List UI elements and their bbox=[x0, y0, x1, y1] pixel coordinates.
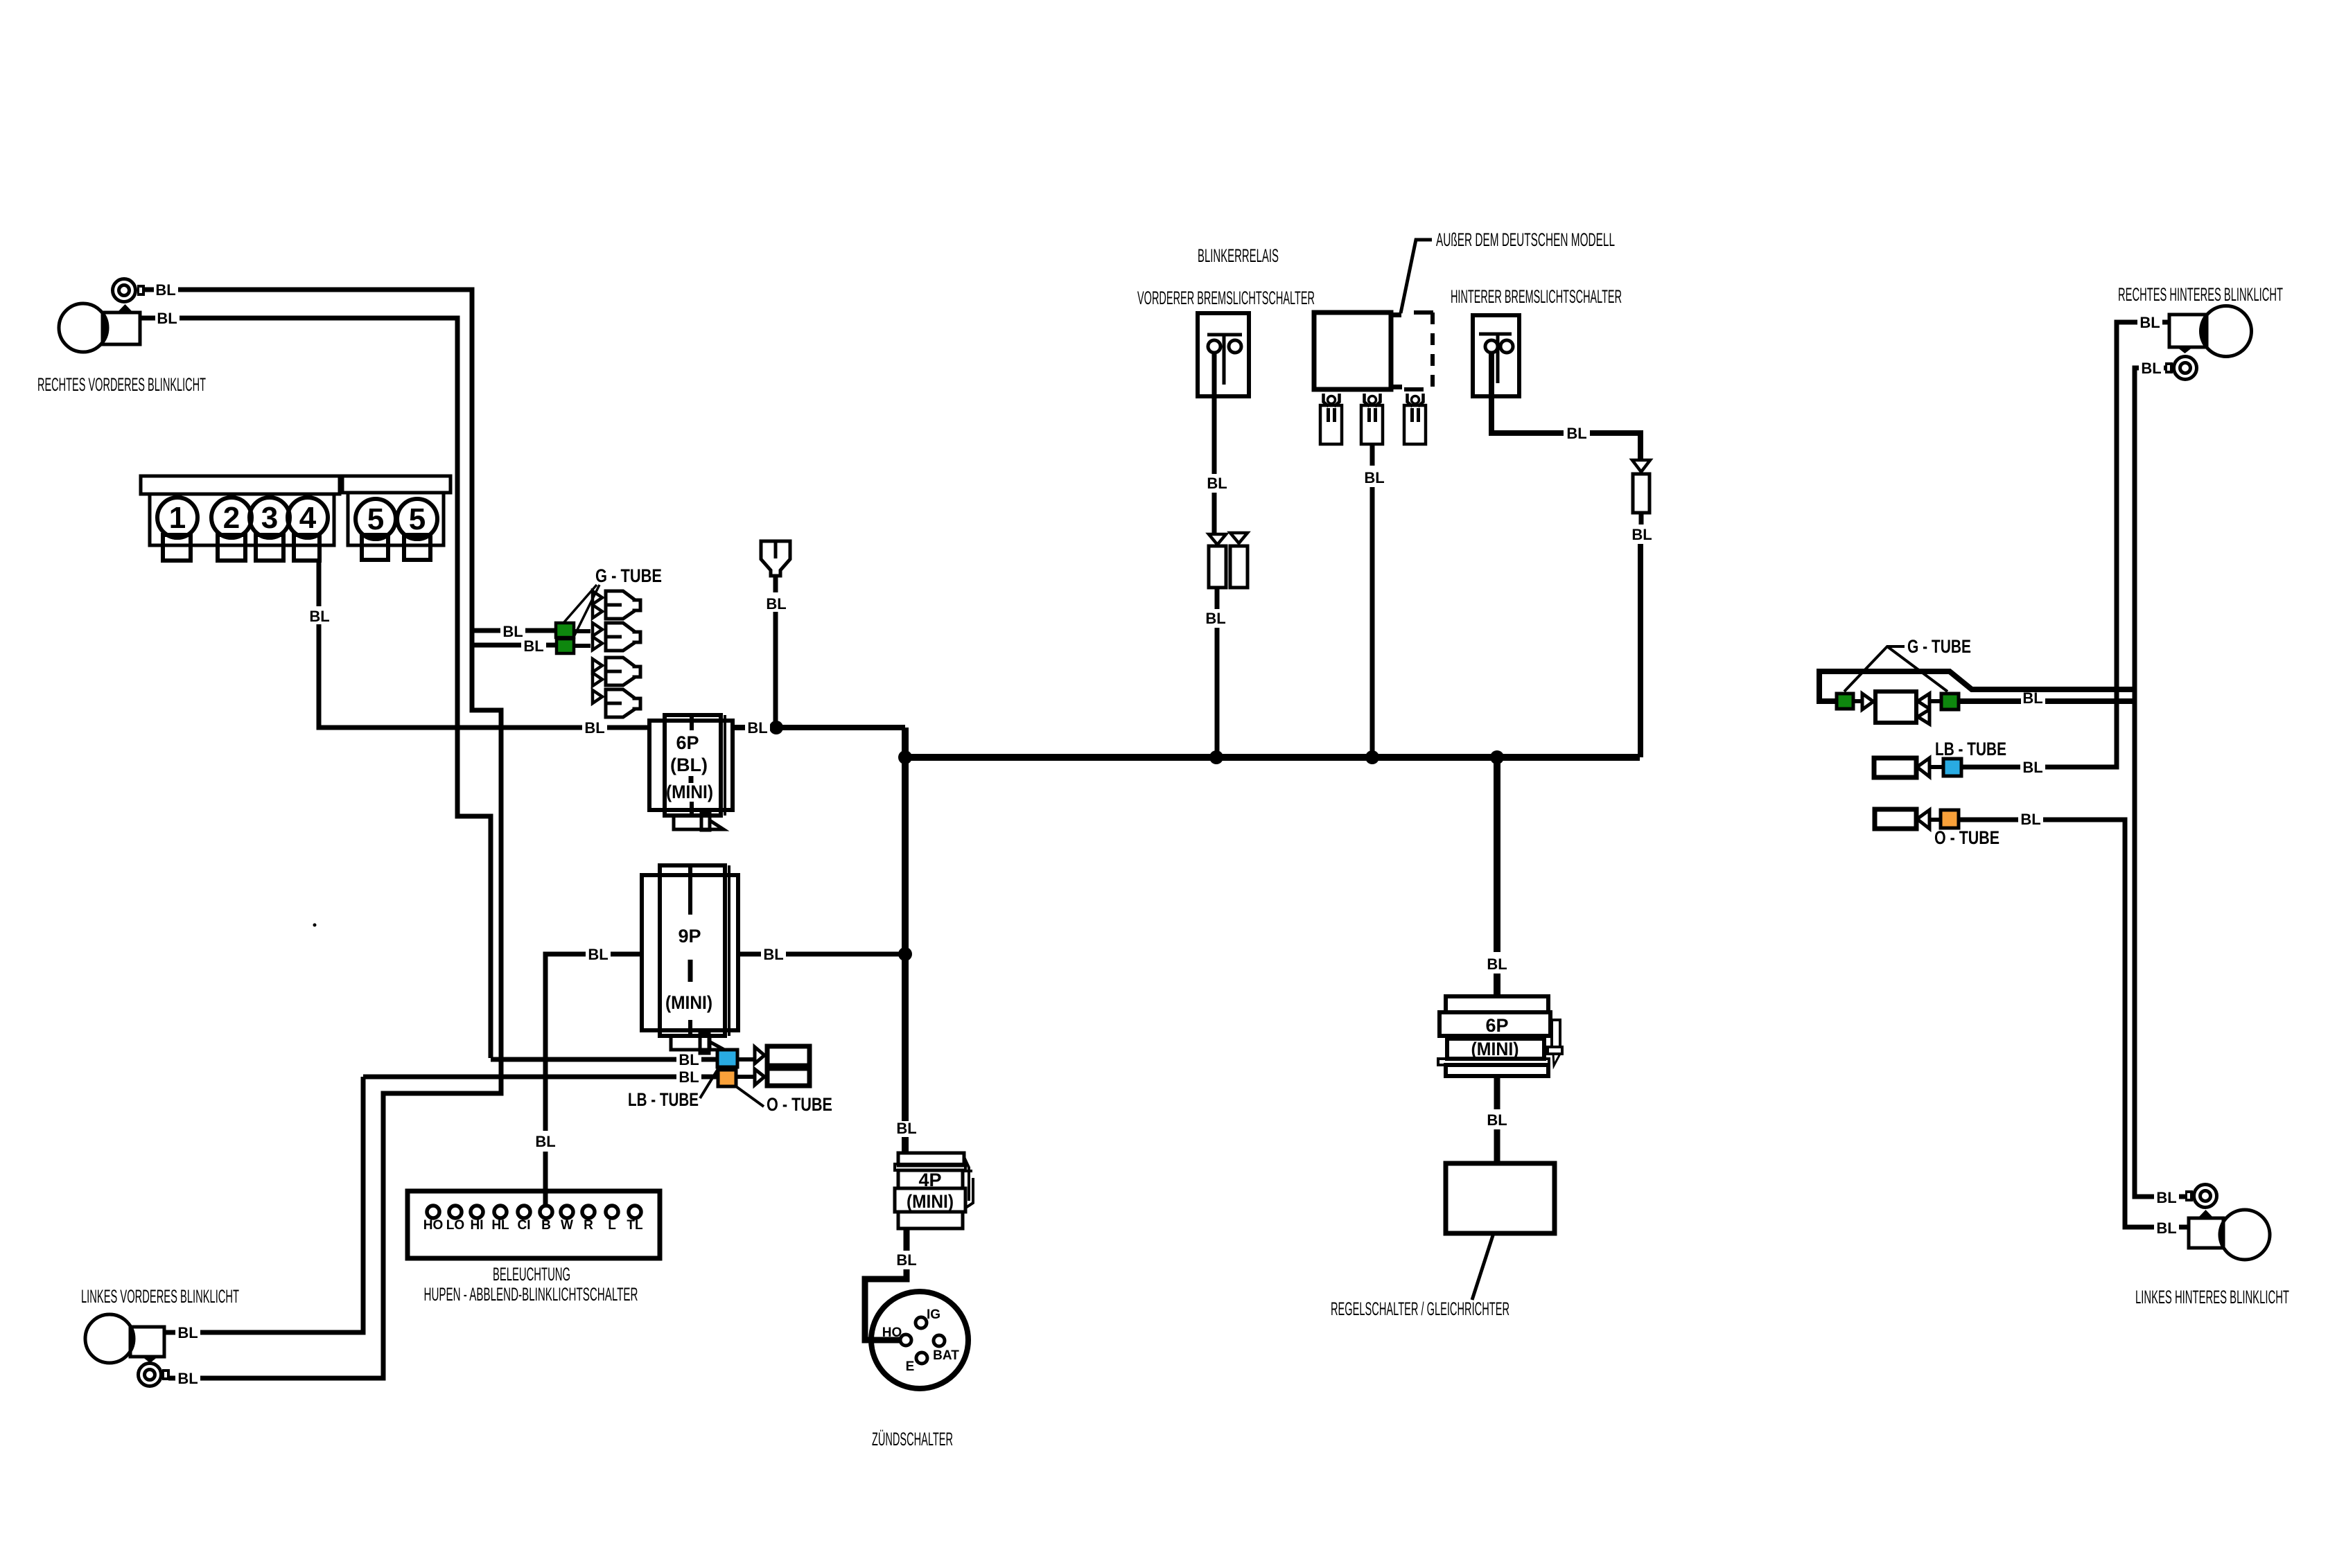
stub wire sleeve1 bbox=[572, 629, 590, 633]
wire 4P down bbox=[904, 1228, 910, 1251]
svg-text:BL: BL bbox=[1566, 425, 1586, 442]
svg-text:L: L bbox=[608, 1218, 616, 1233]
svg-text:BL: BL bbox=[177, 1370, 198, 1387]
front brake switch box bbox=[1198, 313, 1249, 396]
flasher relay solid box bbox=[1314, 312, 1391, 389]
connector 6P right: thin band bbox=[1438, 1059, 1549, 1065]
svg-text:AUßER DEM DEUTSCHEN MODELL: AUßER DEM DEUTSCHEN MODELL bbox=[1436, 229, 1615, 250]
svg-text:TL: TL bbox=[627, 1218, 643, 1233]
LB triangle bbox=[755, 1047, 764, 1064]
diode triangle on rear brake wire bbox=[1632, 460, 1650, 472]
wire front brake switch down bbox=[1212, 353, 1217, 474]
lamp bulb crescent bbox=[59, 303, 107, 352]
LB tube blue sleeve bbox=[717, 1050, 737, 1067]
pin TL bbox=[629, 1206, 641, 1218]
label BL left of 9P bbox=[586, 946, 611, 962]
O triangle bbox=[755, 1069, 764, 1085]
svg-text:HI: HI bbox=[471, 1218, 484, 1233]
connector 6P right: bottom block bbox=[1446, 1065, 1548, 1076]
svg-text:BL: BL bbox=[896, 1120, 916, 1137]
lamp socket rect bbox=[2189, 1218, 2223, 1248]
label BL left lamp wire2 bbox=[175, 1370, 200, 1386]
label BL G-tube wire1 bbox=[500, 623, 525, 639]
connector 6P right: MINI band bbox=[1447, 1039, 1544, 1059]
callout G right bbox=[1844, 646, 1948, 691]
main bus wire bbox=[905, 754, 1640, 761]
label BL bulb4 wire bbox=[307, 606, 332, 624]
svg-text:R: R bbox=[584, 1218, 593, 1233]
SECTION: top-left lamp bbox=[37, 279, 557, 1379]
callout line G-tube 1 bbox=[563, 585, 597, 623]
pin R bbox=[582, 1206, 595, 1218]
svg-text:BL: BL bbox=[155, 281, 175, 299]
indicator housing B cap bbox=[342, 476, 450, 493]
tube terminal symbol 4 bbox=[593, 689, 640, 717]
bulb 1 pin square bbox=[163, 535, 191, 561]
connector 6P inner body bbox=[665, 715, 721, 816]
svg-text:HINTERER BREMSLICHTSCHALTER: HINTERER BREMSLICHTSCHALTER bbox=[1451, 286, 1622, 307]
svg-text:2: 2 bbox=[223, 501, 240, 535]
connector 6P top pin stub bbox=[690, 715, 694, 730]
lamp connector tab bbox=[137, 285, 145, 296]
svg-text:BAT: BAT bbox=[933, 1348, 959, 1363]
svg-text:W: W bbox=[561, 1218, 573, 1233]
junction dot bus right bbox=[1490, 750, 1504, 764]
G-tube connector green sleeve 2 bbox=[557, 639, 574, 653]
stub bbox=[1853, 699, 1862, 703]
pin HO bbox=[900, 1334, 911, 1346]
svg-text:BLINKERRELAIS: BLINKERRELAIS bbox=[1198, 245, 1279, 266]
fuse symbol inline: body bbox=[1209, 546, 1226, 588]
lamp connector ring inner bbox=[119, 285, 130, 296]
front brake switch contact R bbox=[1229, 340, 1241, 353]
svg-text:VORDERER BREMSLICHTSCHALTER: VORDERER BREMSLICHTSCHALTER bbox=[1137, 288, 1315, 308]
label BL LR wire top bbox=[2154, 1189, 2179, 1206]
pin BAT bbox=[934, 1335, 945, 1346]
connector 6P bottom pin stub bbox=[690, 802, 694, 816]
relay top edge extension bbox=[1391, 312, 1401, 317]
wire relay terminal 2 down bbox=[1370, 444, 1375, 466]
rear brake switch contact R bbox=[1500, 340, 1513, 353]
SECTION: switch box / left front lamp bbox=[81, 1191, 660, 1387]
svg-text:BL: BL bbox=[2141, 360, 2161, 377]
wire right green sleeve to left rear lamp top bbox=[1959, 698, 2135, 704]
connector 9P inner body bbox=[660, 865, 725, 1036]
wire G-tube branch 2 bbox=[472, 643, 557, 648]
lamp linkes vorderes Blinklicht: socket rect bbox=[130, 1327, 164, 1357]
G box triangle up bbox=[1918, 694, 1929, 709]
label BL RR wire2 bbox=[2139, 360, 2164, 376]
bulb 1 bbox=[157, 497, 198, 538]
lamp bulb crescent bbox=[2220, 1210, 2270, 1260]
svg-text:BELEUCHTUNG: BELEUCHTUNG bbox=[493, 1264, 570, 1285]
svg-text:BL: BL bbox=[1364, 469, 1384, 486]
wire below fuse bbox=[1639, 513, 1644, 525]
svg-text:BL: BL bbox=[679, 1068, 699, 1086]
lamp connector ring inner bbox=[2200, 1191, 2211, 1201]
O tube body bbox=[767, 1068, 809, 1086]
connector 4P top block bbox=[898, 1153, 964, 1165]
svg-text:LO: LO bbox=[446, 1218, 464, 1233]
stray dot bbox=[313, 924, 317, 927]
wire O row to left rear lamp bottom bbox=[1960, 820, 2189, 1227]
wire into 4P bbox=[902, 1137, 909, 1154]
svg-text:BL: BL bbox=[309, 608, 329, 625]
label BL G-tube wire2 bbox=[521, 637, 546, 653]
svg-text:G - TUBE: G - TUBE bbox=[595, 565, 662, 586]
svg-text:O - TUBE: O - TUBE bbox=[1934, 827, 1999, 848]
wire rear brake switch down and right bbox=[1491, 353, 1640, 459]
svg-text:(BL): (BL) bbox=[670, 755, 708, 775]
svg-text:RECHTES HINTERES BLINKLICHT: RECHTES HINTERES BLINKLICHT bbox=[2118, 284, 2283, 305]
connector 9P top pin stub bbox=[688, 865, 692, 915]
relay terminal 3 bbox=[1404, 394, 1426, 444]
svg-text:BL: BL bbox=[2156, 1219, 2176, 1237]
LB stub bbox=[737, 1057, 755, 1062]
bulb 3 bbox=[250, 497, 290, 538]
connector 4P clamp band bbox=[895, 1164, 965, 1170]
wire right rear lamp terminal2 down bbox=[2135, 368, 2185, 1197]
green sleeve right bbox=[1941, 694, 1959, 710]
SECTION: right 6P / regulator bbox=[1331, 750, 1562, 1319]
svg-text:BL: BL bbox=[2139, 314, 2160, 331]
fuse symbol floating: triangle bbox=[1230, 533, 1248, 543]
connector 6P right: top block bbox=[1446, 996, 1548, 1012]
svg-text:BL: BL bbox=[523, 637, 543, 655]
spade terminal above 6P junction bbox=[761, 541, 790, 576]
connector 9P latch bbox=[671, 1032, 724, 1053]
SECTION: left wiring and tubes bbox=[164, 565, 832, 1378]
svg-text:BL: BL bbox=[1207, 475, 1227, 492]
lamp triangle contact bbox=[117, 304, 133, 312]
lamp bulb circle bbox=[85, 1314, 134, 1363]
stub to green sleeve right bbox=[1929, 699, 1941, 703]
svg-text:HO: HO bbox=[423, 1218, 444, 1233]
svg-text:BL: BL bbox=[766, 595, 786, 613]
label BL wire1 bbox=[154, 281, 178, 298]
pin B bbox=[540, 1206, 552, 1218]
svg-text:BL: BL bbox=[535, 1133, 555, 1150]
connector 6P latch bbox=[674, 813, 724, 830]
green sleeve left bbox=[1837, 694, 1853, 709]
junction dot front brake bbox=[1209, 750, 1223, 764]
O orange sleeve right bbox=[1941, 810, 1959, 828]
rear brake switch box bbox=[1473, 315, 1519, 396]
callout O bbox=[736, 1086, 764, 1107]
connector 6P right double line bbox=[724, 715, 726, 816]
wire G loop to left green sleeve bbox=[1819, 671, 2135, 701]
svg-text:CI: CI bbox=[518, 1218, 531, 1233]
SECTION: center 4P / ignition bbox=[865, 1120, 973, 1450]
svg-text:BL: BL bbox=[588, 946, 608, 963]
wire left lamp riser 2 bbox=[381, 1093, 386, 1378]
indicator housing A body bbox=[150, 494, 334, 545]
svg-text:O - TUBE: O - TUBE bbox=[767, 1094, 832, 1115]
fuse body on rear brake wire bbox=[1633, 474, 1649, 513]
wire 9P left + riser to switch bbox=[545, 954, 642, 1131]
regulator/rectifier box bbox=[1446, 1163, 1555, 1233]
svg-text:RECHTES VORDERES BLINKLICHT: RECHTES VORDERES BLINKLICHT bbox=[37, 374, 206, 395]
rear brake switch T bar bbox=[1479, 334, 1512, 383]
triangle right-pointing bbox=[1862, 694, 1873, 710]
G tube box bbox=[1875, 691, 1916, 723]
lamp bulb circle bbox=[59, 303, 107, 352]
relay bottom edge extension bbox=[1391, 385, 1402, 389]
svg-text:G - TUBE: G - TUBE bbox=[1907, 636, 1971, 657]
wire left lamp riser 1 bbox=[164, 1077, 363, 1332]
svg-text:(MINI): (MINI) bbox=[907, 1191, 954, 1212]
connector 4P MINI band bbox=[895, 1188, 965, 1212]
lamp bulb circle bbox=[2220, 1210, 2270, 1260]
svg-text:BL: BL bbox=[679, 1051, 699, 1068]
svg-text:LINKES HINTERES BLINKLICHT: LINKES HINTERES BLINKLICHT bbox=[2135, 1287, 2289, 1307]
fuse symbol floating: body bbox=[1230, 546, 1248, 588]
wire to ignition switch HO pin bbox=[865, 1269, 907, 1340]
lamp triangle contact bbox=[2198, 1210, 2214, 1218]
svg-text:BL: BL bbox=[2020, 811, 2040, 828]
label BL right of 9P bbox=[761, 946, 786, 962]
wire to bus bbox=[1215, 628, 1220, 757]
svg-text:LB - TUBE: LB - TUBE bbox=[1935, 739, 2006, 759]
pin HO bbox=[427, 1206, 439, 1218]
svg-text:LB - TUBE: LB - TUBE bbox=[628, 1089, 699, 1110]
label BL spade bbox=[764, 592, 789, 612]
bulb 2 bbox=[211, 497, 252, 538]
lamp rechtes hinteres Blinklicht: socket rect bbox=[2169, 315, 2207, 347]
connector 4P bottom block bbox=[898, 1212, 963, 1228]
svg-text:9P: 9P bbox=[678, 926, 701, 946]
svg-text:6P: 6P bbox=[1485, 1015, 1508, 1036]
label BL rear brake horizontal bbox=[1564, 425, 1590, 441]
wire into right 6P bbox=[1494, 974, 1500, 998]
bulb 3 pin square bbox=[256, 535, 283, 561]
label BL LB row bbox=[676, 1052, 701, 1067]
connector 6P right: side bracket bbox=[1552, 1020, 1560, 1047]
pin IG bbox=[916, 1317, 927, 1328]
wire into regulator bbox=[1494, 1129, 1500, 1164]
SECTION: bulb cluster bbox=[141, 476, 649, 927]
junction dot relay bbox=[1365, 750, 1379, 764]
bulb 2 pin square bbox=[218, 535, 245, 561]
svg-text:HO: HO bbox=[882, 1325, 902, 1340]
svg-text:BL: BL bbox=[2022, 759, 2042, 776]
svg-text:1: 1 bbox=[169, 501, 186, 535]
bulb 5b pin square bbox=[404, 535, 430, 560]
G box triangle down bbox=[1918, 710, 1929, 724]
svg-text:IG: IG bbox=[927, 1307, 940, 1322]
label BL O row right bbox=[2018, 812, 2043, 827]
front brake switch contact L bbox=[1208, 340, 1220, 353]
svg-text:E: E bbox=[906, 1359, 915, 1374]
wire bus down to right 6P bbox=[1494, 757, 1500, 952]
wire G-tube branch 1 bbox=[472, 628, 557, 633]
lamp triangle contact bbox=[142, 1357, 158, 1363]
wire right rear lamp terminal1 to LB row bbox=[1961, 322, 2170, 767]
tube terminal symbol 2 bbox=[593, 623, 640, 651]
label BL LR wire bottom bbox=[2154, 1219, 2179, 1236]
bulb 4 pin square bbox=[294, 535, 320, 561]
indicator housing A cap bbox=[141, 476, 340, 494]
lamp triangle contact bbox=[2177, 347, 2193, 353]
pin HI bbox=[471, 1206, 483, 1218]
LB stub bbox=[1929, 765, 1943, 769]
svg-text:BL: BL bbox=[1487, 955, 1507, 973]
connector 9P: outer shell bbox=[642, 875, 738, 1030]
rear brake switch contact L bbox=[1485, 340, 1498, 353]
svg-text:BL: BL bbox=[1631, 526, 1652, 543]
front brake switch T bar bbox=[1207, 335, 1242, 385]
LB tube body right bbox=[1874, 758, 1916, 777]
bulb 5b bbox=[397, 499, 437, 539]
pin HL bbox=[494, 1206, 507, 1218]
svg-text:5: 5 bbox=[367, 502, 384, 536]
lamp connector ring outer bbox=[113, 279, 136, 302]
switch box Beleuchtung/Hupen bbox=[408, 1191, 660, 1258]
wire right-front lamp terminal 1 (BL) to vertical bus B bbox=[145, 290, 501, 1378]
svg-text:5: 5 bbox=[409, 502, 426, 536]
label BL wire2 bbox=[155, 310, 180, 326]
junction dot 6P bbox=[769, 721, 783, 734]
svg-text:BL: BL bbox=[763, 946, 783, 963]
connector 9P bottom pin stub bbox=[688, 1020, 692, 1036]
wire right 6P down bbox=[1494, 1076, 1500, 1109]
O triangle right bbox=[1917, 810, 1929, 829]
LB tube body bbox=[767, 1046, 809, 1066]
lamp connector ring outer bbox=[2174, 357, 2197, 380]
callout ausser dem deutschen modell bbox=[1401, 240, 1432, 313]
svg-text:BL: BL bbox=[2022, 689, 2042, 707]
pin LO bbox=[449, 1206, 462, 1218]
wire 9P right to bus riser bbox=[738, 952, 905, 957]
fuse symbol inline: triangle bbox=[1209, 534, 1226, 545]
lamp connector tab bbox=[2185, 1190, 2193, 1201]
lamp connector ring inner bbox=[145, 1370, 155, 1380]
svg-text:4: 4 bbox=[299, 501, 317, 535]
lamp bulb circle bbox=[2201, 306, 2252, 357]
svg-text:HL: HL bbox=[491, 1218, 509, 1233]
pin L bbox=[606, 1206, 618, 1218]
SECTION: right tubes / rear lamps bbox=[1819, 284, 2289, 1307]
svg-text:(MINI): (MINI) bbox=[1471, 1039, 1519, 1059]
svg-text:BL: BL bbox=[2156, 1189, 2176, 1206]
svg-text:(MINI): (MINI) bbox=[666, 782, 713, 802]
svg-text:BL: BL bbox=[896, 1251, 916, 1269]
svg-text:BL: BL bbox=[747, 719, 767, 737]
lamp rechtes vorderes Blinklicht: socket rect bbox=[103, 312, 140, 344]
connector 4P side bracket bbox=[963, 1157, 973, 1208]
lamp connector tab bbox=[162, 1369, 170, 1380]
svg-text:BL: BL bbox=[502, 623, 523, 640]
svg-text:3: 3 bbox=[261, 501, 278, 535]
bulb 5a pin square bbox=[362, 535, 388, 560]
label BL right of 6P bbox=[745, 719, 770, 736]
label BL LB row right bbox=[2020, 759, 2045, 775]
label BL RR wire1 bbox=[2137, 314, 2162, 331]
wire relay to bus bbox=[1370, 487, 1375, 757]
svg-text:BL: BL bbox=[1205, 610, 1225, 627]
relay dashed extension top bbox=[1414, 310, 1435, 315]
G-tube connector green sleeve 1 bbox=[556, 623, 574, 637]
SECTION: connectors 6P/9P bbox=[535, 541, 1640, 1206]
lamp bulb crescent bbox=[85, 1314, 134, 1363]
label BL G row right bbox=[2021, 692, 2045, 705]
tube terminal symbol 1 bbox=[593, 591, 640, 619]
callout line G-tube 2 bbox=[573, 585, 599, 638]
svg-text:(MINI): (MINI) bbox=[665, 992, 712, 1013]
connector 6P right: main band bbox=[1439, 1012, 1550, 1036]
O tube body right bbox=[1875, 809, 1916, 829]
O tube orange sleeve bbox=[718, 1070, 736, 1086]
relay terminal 1 bbox=[1320, 394, 1342, 444]
stub wire sleeve2 bbox=[572, 644, 590, 648]
wire spade terminal down to junction bbox=[773, 576, 778, 728]
connector 9P right double line bbox=[728, 865, 730, 1036]
wire bus down to 4P bbox=[902, 757, 909, 1121]
callout regulator bbox=[1472, 1233, 1494, 1300]
wire right-front lamp terminal 2 (BL) to vertical bus A bbox=[139, 318, 491, 1058]
relay terminal 2 bbox=[1361, 394, 1383, 444]
wire 6P right to junction and down to bus bbox=[733, 725, 905, 730]
wire rear brake to bus bbox=[1638, 544, 1643, 757]
svg-text:REGELSCHALTER / GLEICHRICHTER: REGELSCHALTER / GLEICHRICHTER bbox=[1331, 1298, 1509, 1319]
connector 6P (BL)(MINI): outer shell bbox=[649, 721, 733, 810]
label BL left lamp wire1 bbox=[175, 1324, 200, 1341]
svg-text:LINKES VORDERES BLINKLICHT: LINKES VORDERES BLINKLICHT bbox=[81, 1286, 239, 1307]
bulb 5a bbox=[356, 499, 396, 539]
bulb 4 bbox=[288, 497, 328, 538]
lamp linkes hinteres Blinklicht: connector ring outer bbox=[2194, 1185, 2217, 1208]
wire LB-tube row bbox=[491, 1057, 717, 1062]
lamp connector ring inner bbox=[2180, 363, 2191, 373]
lamp connector ring outer bbox=[139, 1364, 161, 1386]
pin CI bbox=[518, 1206, 530, 1218]
label BL left of 6P bbox=[582, 719, 607, 736]
wire continues bbox=[1212, 493, 1217, 534]
label BL O row bbox=[676, 1069, 701, 1084]
svg-text:HUPEN - ABBLEND-BLINKLICHTSCHA: HUPEN - ABBLEND-BLINKLICHTSCHALTER bbox=[424, 1284, 638, 1305]
pin W bbox=[561, 1206, 573, 1218]
svg-text:BL: BL bbox=[584, 719, 604, 737]
callout LB bbox=[700, 1068, 719, 1098]
O stub bbox=[736, 1075, 755, 1079]
relay dashed extension bottom bbox=[1404, 387, 1425, 391]
tube terminal symbol 3 bbox=[593, 658, 640, 686]
O stub bbox=[1929, 818, 1941, 822]
dash bbox=[689, 776, 694, 783]
wire below fuse bbox=[1215, 588, 1220, 609]
pin E bbox=[916, 1353, 927, 1364]
wire O-tube row (from left front lamp riser) bbox=[363, 1075, 718, 1080]
connector 4P mid block bbox=[898, 1170, 963, 1188]
svg-text:BL: BL bbox=[1487, 1111, 1507, 1129]
wire indicator bulb 4 to 6P connector (BL) bbox=[319, 558, 649, 728]
lamp connector tab bbox=[2165, 362, 2173, 373]
svg-text:ZÜNDSCHALTER: ZÜNDSCHALTER bbox=[872, 1429, 953, 1450]
svg-text:BL: BL bbox=[157, 310, 177, 327]
SECTION: top middle relay/brake switches bbox=[1137, 229, 1652, 764]
relay dashed extension right bbox=[1430, 312, 1435, 389]
LB triangle right bbox=[1917, 758, 1929, 777]
dash 9P bbox=[688, 960, 693, 982]
junction dot bus left bbox=[898, 750, 912, 764]
indicator housing B body bbox=[348, 493, 444, 545]
svg-text:B: B bbox=[541, 1218, 551, 1233]
svg-text:6P: 6P bbox=[676, 732, 699, 753]
junction dot 9P bbox=[898, 947, 912, 961]
ignition switch body bbox=[871, 1292, 968, 1389]
LB blue sleeve right bbox=[1943, 759, 1961, 776]
svg-text:BL: BL bbox=[177, 1324, 198, 1341]
